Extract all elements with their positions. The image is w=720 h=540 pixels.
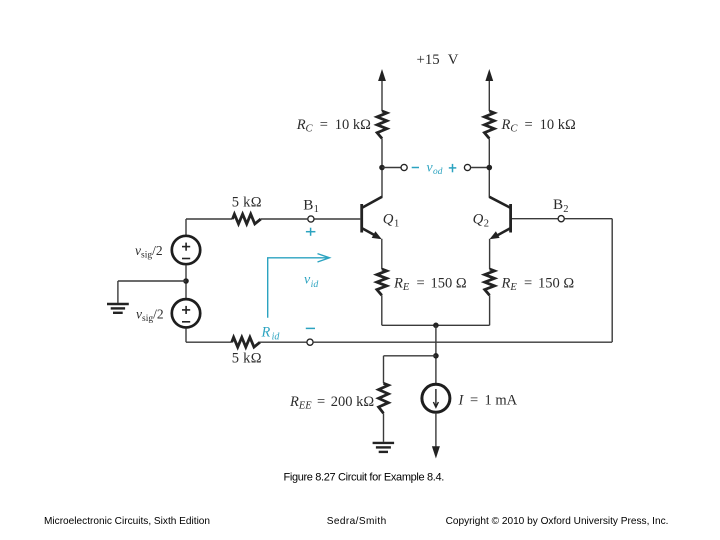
wire Q2 emitter down [489, 239, 491, 269]
label minus (vid) [306, 327, 315, 329]
svg-text:od: od [433, 167, 443, 177]
svg-text:5 kΩ: 5 kΩ [232, 195, 262, 211]
wire B2 to right corner [564, 218, 612, 220]
wire bottom rail right [313, 341, 612, 343]
node output right junction dot [487, 165, 493, 171]
wire REE to ground [383, 413, 385, 442]
wire emitter node horizontal [382, 324, 490, 326]
wire bottom-left rail [186, 341, 232, 343]
current source inner arrow [435, 389, 437, 407]
wire between sources [185, 265, 187, 298]
resistor RE left [377, 269, 387, 295]
Q1 emitter arrowhead [372, 231, 382, 239]
resistor REE [379, 383, 389, 413]
svg-text:Sedra/Smith: Sedra/Smith [327, 516, 387, 527]
wire output right stub [471, 167, 490, 169]
wire REE branch horizontal [384, 355, 436, 357]
label vod plus [449, 164, 457, 172]
wire right vertical down [611, 219, 613, 342]
label plus (vid) [306, 228, 316, 236]
svg-text:2: 2 [484, 218, 489, 229]
Q2 base bar [509, 204, 512, 233]
wire right supply vertical [488, 79, 490, 111]
resistor 5k bottom [232, 337, 260, 347]
svg-text:RE=150 Ω: RE=150 Ω [501, 276, 575, 294]
svg-text:Q: Q [473, 211, 484, 227]
wire below current source [435, 413, 437, 447]
svg-text:RC=10 kΩ: RC=10 kΩ [501, 117, 576, 135]
wire top-left rail [186, 218, 233, 220]
svg-text:RC=10 kΩ: RC=10 kΩ [296, 117, 371, 135]
wire base B1 to Q1 [314, 218, 360, 220]
resistor 5k top [233, 214, 261, 224]
wire center vertical to current source [435, 325, 437, 383]
resistor RC left [377, 111, 387, 139]
svg-text:I=1 mA: I=1 mA [458, 393, 518, 409]
svg-text:1: 1 [394, 218, 399, 229]
svg-text:2: 2 [563, 204, 568, 215]
Q1 emitter stroke [362, 228, 375, 235]
wire RE right to node [489, 295, 491, 325]
svg-text:RE=150 Ω: RE=150 Ω [393, 276, 467, 294]
resistor RE right [485, 269, 495, 295]
source vsig/2 bottom [172, 299, 200, 327]
label vod minus [412, 167, 419, 169]
wire top source to rail [185, 219, 187, 235]
Q2 emitter arrowhead [490, 231, 500, 239]
wire to left ground [118, 280, 186, 282]
svg-text:Q: Q [383, 211, 394, 227]
Q2 emitter stroke [497, 228, 510, 235]
svg-text:id: id [311, 279, 319, 290]
node output left terminal circle [401, 164, 407, 170]
wire 5k top to B1 [261, 218, 308, 220]
wire Q1 emitter down [381, 239, 383, 269]
svg-text:V: V [448, 52, 459, 68]
svg-text:id: id [272, 331, 281, 342]
svg-text:+15: +15 [417, 52, 440, 68]
svg-text:vsig/2: vsig/2 [136, 307, 164, 325]
wire left supply vertical [381, 79, 383, 111]
wire base Q2 to B2 [512, 218, 558, 220]
power arrow right (+15V) [485, 69, 493, 81]
node Rid terminal circle [307, 339, 313, 345]
svg-text:1: 1 [314, 204, 319, 215]
wire RC right bottom to collector [488, 139, 490, 198]
wire REE branch vertical [383, 356, 385, 384]
wire RE left to node [381, 295, 383, 325]
node sources junction dot [183, 278, 189, 284]
wire 5k bottom to Rid circle [260, 341, 307, 343]
svg-text:R: R [261, 325, 271, 341]
node emitter junction dot [433, 323, 439, 329]
ground left [107, 304, 129, 313]
svg-text:Figure 8.27 Circuit for Exampl: Figure 8.27 Circuit for Example 8.4. [284, 472, 445, 484]
wire RC left bottom to collector [381, 139, 383, 198]
arrow vid (cyan) [268, 254, 330, 318]
svg-text:B: B [303, 197, 313, 214]
transistor Q2 [489, 197, 510, 240]
node output left junction dot [379, 165, 385, 171]
node output right terminal circle [464, 164, 470, 170]
resistor RC right [484, 111, 494, 139]
Q2 collector stroke [489, 197, 510, 208]
node B1 terminal circle [308, 216, 314, 222]
svg-text:Copyright © 2010 by Oxford Uni: Copyright © 2010 by Oxford University Pr… [446, 516, 669, 527]
svg-text:Microelectronic Circuits, Sixt: Microelectronic Circuits, Sixth Edition [44, 516, 210, 527]
node REE tap junction dot [433, 353, 439, 359]
source vsig/2 top [172, 236, 200, 264]
arrow current source bottom [432, 446, 440, 458]
wire bottom source down [185, 328, 187, 342]
current source I [422, 384, 450, 412]
ground REE [373, 443, 395, 452]
Q1 base bar [360, 204, 363, 233]
Q1 collector stroke [362, 197, 382, 208]
power arrow left (+15V) [378, 69, 386, 81]
wire output left stub [382, 167, 401, 169]
node B2 terminal circle [558, 216, 564, 222]
transistor Q1 [362, 197, 382, 240]
svg-text:vsig/2: vsig/2 [135, 243, 163, 261]
svg-text:5 kΩ: 5 kΩ [232, 351, 262, 367]
svg-text:B: B [553, 196, 563, 213]
svg-text:REE=200 kΩ: REE=200 kΩ [289, 394, 374, 412]
